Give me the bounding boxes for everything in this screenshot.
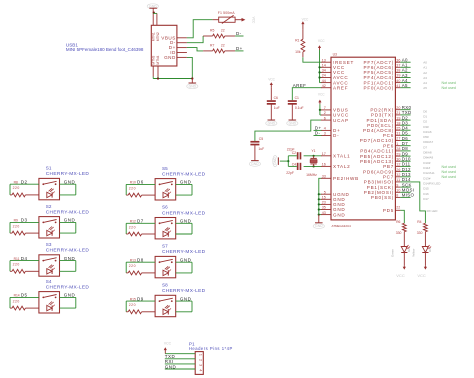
wire S5 to GND (176, 183, 192, 185)
svg-text:Not used: Not used (442, 175, 456, 179)
pin 26 PD6(ADC9) net D12 (395, 171, 400, 173)
wire LED cathode S6 (176, 233, 192, 235)
svg-text:29: 29 (396, 152, 400, 156)
svg-text:R12: R12 (130, 220, 136, 224)
pin 31 PC6 net D5 (395, 134, 400, 136)
svg-text:42: 42 (322, 84, 326, 88)
wire AVCC pin44 (320, 82, 322, 84)
svg-text:220: 220 (129, 264, 136, 268)
svg-text:220: 220 (13, 263, 20, 267)
svg-text:13: 13 (322, 58, 326, 62)
svg-text:GND: GND (333, 212, 345, 217)
pin 4 D+ (321, 129, 331, 131)
svg-text:33: 33 (322, 175, 326, 179)
svg-text:27: 27 (396, 137, 400, 141)
svg-text:GND: GND (268, 121, 276, 125)
svg-text:Headers Pins 1*4P: Headers Pins 1*4P (189, 346, 233, 351)
wire USB D+ to R7 (187, 48, 203, 51)
pin 22 PD5 (395, 209, 400, 211)
wire LED cathode S2 (60, 232, 76, 234)
svg-text:MTN3: MTN3 (152, 55, 156, 64)
switch S5 CHERRY-MX-LED body (155, 179, 176, 200)
supply VCC arrow right of F1 (242, 18, 246, 22)
pin 27 PD7(ADC10) net D6 (395, 140, 400, 142)
svg-text:38: 38 (396, 69, 400, 73)
svg-text:40: 40 (396, 79, 400, 83)
svg-text:D1: D1 (428, 248, 432, 252)
svg-text:GND: GND (189, 84, 197, 88)
svg-text:10: 10 (396, 189, 400, 193)
wire R6 to LED (403, 232, 405, 247)
svg-text:RX LED: RX LED (427, 209, 439, 213)
wire S2 to GND (60, 221, 76, 223)
svg-text:5: 5 (324, 190, 326, 194)
pin 35 GND (321, 209, 331, 211)
wire VCC pin14 (320, 66, 322, 68)
wire net A2 (400, 71, 410, 73)
svg-text:CHERRY-MX-LED: CHERRY-MX-LED (46, 284, 90, 290)
pin D- stub (177, 42, 187, 44)
pin 39 PF4(ADC4) net A3 (395, 77, 400, 79)
wire C2 left (288, 155, 297, 157)
wire GND return S8 (191, 301, 193, 312)
svg-text:30: 30 (396, 157, 400, 161)
wire C4 left (288, 165, 297, 167)
svg-text:CHERRY-MX-LED: CHERRY-MX-LED (162, 288, 206, 294)
ground symbol under USB (191, 79, 193, 84)
svg-text:D0: D0 (423, 109, 427, 113)
pin 44 AVCC (321, 82, 331, 84)
wire R11 to LED anode (25, 270, 39, 272)
svg-text:CHERRY-MX-LED: CHERRY-MX-LED (162, 171, 206, 177)
svg-text:GND: GND (180, 180, 192, 185)
pin 41 PF0(ADC0) net A5 (395, 87, 400, 89)
svg-text:PE2!HWB: PE2!HWB (333, 176, 359, 181)
svg-text:26: 26 (396, 168, 400, 172)
svg-text:GND: GND (165, 364, 177, 369)
wire S4 to GND (60, 296, 76, 298)
wire GND return S7 (191, 262, 193, 273)
wire XTAL1 row (304, 155, 322, 157)
resistor R7 22 (203, 50, 213, 52)
svg-text:GND: GND (251, 162, 259, 166)
svg-text:D8: D8 (137, 258, 144, 263)
svg-text:C6: C6 (274, 96, 278, 100)
wire R7 to net D+ (235, 50, 243, 52)
junction VCC pin14 (318, 66, 320, 68)
svg-text:1uF: 1uF (274, 106, 280, 110)
svg-text:22: 22 (221, 29, 225, 33)
pin MTN3 bottom stub (152, 66, 154, 77)
svg-text:R15: R15 (130, 297, 136, 301)
svg-text:D-: D- (236, 31, 242, 36)
svg-text:41: 41 (396, 84, 400, 88)
svg-text:D-: D- (315, 131, 321, 136)
svg-text:35: 35 (322, 206, 326, 210)
wire MTN3 to GND rail (152, 77, 154, 79)
connector P1 Headers Pins 1*4P body (195, 352, 203, 375)
svg-text:19: 19 (396, 116, 400, 120)
svg-text:S1: S1 (46, 166, 52, 171)
svg-text:Y1: Y1 (311, 149, 315, 153)
wire LED cathode S4 (60, 307, 76, 309)
svg-text:C5: C5 (259, 137, 263, 141)
svg-text:D17: D17 (423, 197, 429, 201)
pin 16 XTAL2 (321, 165, 331, 167)
svg-text:PF0(ADC0): PF0(ADC0) (364, 85, 395, 90)
svg-text:330: 330 (396, 231, 402, 235)
svg-text:Not used: Not used (442, 86, 456, 90)
connector USB1 MINI 5PFemale180 body (151, 25, 177, 66)
junction AVCC pin24 (318, 76, 320, 78)
wire LED to VCC down (403, 253, 405, 266)
svg-text:R8: R8 (14, 181, 18, 185)
supply VCC below RX LED (424, 265, 426, 268)
capacitor C1 0.1uF (288, 100, 297, 102)
wire net D4 (400, 129, 410, 131)
capacitor C4 22pF (297, 163, 299, 170)
wire net D3 (400, 124, 410, 126)
svg-text:A2: A2 (423, 71, 427, 75)
wire R5 to net D- (235, 35, 243, 37)
svg-text:15: 15 (322, 196, 326, 200)
wire LED cathode S8 (176, 311, 192, 313)
pin 42 AREF (321, 87, 331, 89)
svg-text:28: 28 (396, 147, 400, 151)
wire LED cathode S3 (60, 270, 76, 272)
svg-text:12: 12 (396, 163, 400, 167)
svg-text:GND: GND (180, 296, 192, 301)
svg-text:AREF: AREF (333, 85, 348, 90)
pin 15 GND (321, 198, 331, 200)
junction XTAL2 crystal (313, 165, 315, 167)
pin 8 PB0(SS) net MISO (395, 196, 400, 198)
svg-text:D1: D1 (423, 115, 427, 119)
switch S1 CHERRY-MX-LED body (39, 178, 60, 199)
svg-text:D15: D15 (423, 187, 429, 191)
LED yellow RX (422, 247, 428, 253)
junction MTN1/MTN2 to GND (153, 12, 155, 14)
pin 29 PB5(ADC12) net D9 (395, 155, 400, 157)
svg-text:24: 24 (322, 74, 326, 78)
svg-text:6: 6 (324, 116, 326, 120)
pin 36 PF7(ADC7) net A0 (395, 61, 400, 63)
svg-text:D16: D16 (423, 192, 429, 196)
wire MTN4 to GND rail (157, 77, 159, 79)
wire net D3 to S2 (10, 221, 39, 223)
junction VBUS (319, 109, 321, 111)
wire net A4 (400, 82, 410, 84)
wire XTAL2 row (304, 165, 322, 167)
wire R4 to LED (424, 232, 426, 247)
wire S1 to GND (60, 183, 76, 185)
wire C6 to ground (270, 105, 272, 121)
svg-text:U3: U3 (333, 53, 337, 57)
pin 17 XTAL1 (321, 155, 331, 157)
wire net D13 (400, 176, 410, 178)
pin 34 VCC (321, 71, 331, 73)
resistor R1 10k reset pullup (302, 29, 304, 39)
pin 2 UVCC (321, 114, 331, 116)
wire net A3 (400, 77, 410, 79)
svg-text:D10#: D10# (423, 161, 431, 165)
wire USB GND down (187, 57, 192, 78)
svg-text:VCC: VCC (396, 273, 405, 278)
svg-text:CHERRY-MX-LED: CHERRY-MX-LED (46, 248, 90, 254)
svg-text:R13: R13 (130, 259, 136, 263)
wire MTN1-MTN2 join (153, 12, 157, 14)
svg-text:MTN1: MTN1 (152, 32, 156, 41)
svg-text:220: 220 (129, 303, 136, 307)
svg-text:D9#/A9: D9#/A9 (423, 156, 433, 160)
svg-text:R11: R11 (14, 257, 20, 261)
svg-text:GND: GND (273, 157, 277, 165)
svg-text:D4/A6: D4/A6 (423, 130, 432, 134)
wire net SCK (400, 186, 410, 188)
wire GND return S6 (191, 223, 193, 234)
ground under C1 (289, 119, 297, 121)
wire UCAP to C5 (255, 120, 322, 141)
pin 5 UGND (321, 193, 331, 195)
wire VCC chain vertical (319, 50, 321, 83)
wire UVCC pin (320, 114, 322, 116)
junction VCC pin34 (318, 71, 320, 73)
svg-text:S8: S8 (162, 283, 168, 288)
svg-text:8: 8 (396, 194, 398, 198)
wire LED cathode S1 (60, 194, 76, 196)
supply VCC below TX LED (403, 265, 405, 268)
svg-text:S7: S7 (162, 244, 168, 249)
svg-text:CHERRY-MX-LED: CHERRY-MX-LED (162, 249, 206, 255)
pin 33 PE2!HWB (321, 177, 331, 179)
svg-text:GND: GND (180, 258, 192, 263)
svg-text:2: 2 (324, 111, 326, 115)
svg-text:22pF: 22pF (286, 171, 294, 175)
svg-text:XTAL2: XTAL2 (333, 164, 350, 169)
wire D14 to R4 (RX LED) (411, 182, 426, 223)
switch S7 CHERRY-MX-LED body (155, 256, 176, 277)
svg-text:R7: R7 (210, 44, 214, 48)
junction caps to ground (287, 160, 289, 162)
pin 38 PF5(ADC5) net A2 (395, 71, 400, 73)
wire GND pin23 (319, 203, 322, 205)
wire GND pin15 (319, 198, 322, 200)
svg-text:VCC: VCC (318, 39, 325, 43)
wire R13 to LED anode (142, 272, 156, 274)
pin 37 PF6(ADC6) net A1 (395, 66, 400, 68)
wire VCC to P1 pin1 (165, 353, 195, 355)
pin 19 PD1(SDA) net D2 (395, 119, 400, 121)
svg-text:D2: D2 (21, 180, 28, 185)
svg-text:VCC: VCC (417, 273, 426, 278)
wire GND rail under USB (153, 78, 192, 80)
wire GND return S2 (75, 222, 77, 233)
wire R1 to !RESET pin (302, 52, 304, 57)
junction UGND (318, 193, 320, 195)
svg-text:32: 32 (396, 173, 400, 177)
wire S7 to GND (176, 261, 192, 263)
pin 1 PE6 net D7 (395, 145, 400, 147)
wire net D8 (400, 150, 410, 152)
svg-text:GND: GND (180, 219, 192, 224)
junction MTN4 GND rail (157, 77, 159, 79)
wire GND return S4 (75, 297, 77, 308)
pin 28 PB4(ADC11) net D8 (395, 150, 400, 152)
wire net D14 (400, 181, 410, 183)
svg-text:R14: R14 (14, 294, 20, 298)
svg-text:C2: C2 (292, 151, 296, 155)
svg-text:UCAP: UCAP (333, 118, 349, 123)
wire C2-C4 junction vertical (287, 156, 289, 167)
svg-text:Not used: Not used (442, 81, 456, 85)
svg-text:VCC: VCC (164, 342, 172, 346)
wire net D7 (400, 145, 410, 147)
wire VCC pin34 (320, 71, 322, 73)
wire net D5 (400, 134, 410, 136)
svg-text:D12/A11: D12/A11 (423, 171, 435, 175)
svg-text:GND: GND (164, 55, 176, 60)
switch S4 CHERRY-MX-LED body (39, 292, 60, 313)
pin GND stub (177, 56, 187, 58)
svg-text:D5: D5 (21, 293, 28, 298)
svg-text:ATMEGA32U4: ATMEGA32U4 (332, 224, 352, 228)
wire GND return S3 (75, 261, 77, 272)
wire to crystal ground (280, 160, 289, 162)
svg-text:16: 16 (322, 163, 326, 167)
wire net D6 (400, 140, 410, 142)
wire R9 to LED anode (25, 232, 39, 234)
wire net D2 (400, 119, 410, 121)
wire GND pin43 (319, 214, 322, 216)
svg-text:MISO: MISO (402, 193, 415, 198)
wire PD5 to R6 (400, 210, 404, 223)
svg-text:GND: GND (315, 224, 323, 228)
ground under MCU (318, 215, 320, 223)
svg-text:Green: Green (391, 249, 395, 257)
svg-text:F1 500mA: F1 500mA (218, 11, 236, 15)
wire LED cathode S5 (176, 194, 192, 196)
pin 18 PD0(SCL) net D3 (395, 124, 400, 126)
ground for crystal caps rotated (277, 157, 279, 165)
svg-text:D9: D9 (137, 296, 144, 301)
svg-text:0.1uF: 0.1uF (295, 106, 304, 110)
wire GND return S1 (75, 184, 77, 195)
pin 11 PB3(MISO) net D14 (395, 181, 400, 183)
svg-text:22: 22 (221, 44, 225, 48)
svg-text:25: 25 (396, 126, 400, 130)
svg-text:A4: A4 (423, 81, 427, 85)
svg-text:Not used: Not used (442, 165, 456, 169)
svg-text:D3: D3 (21, 218, 28, 223)
pin 6 UCAP (321, 119, 331, 121)
wire net MOSI (400, 191, 410, 193)
wire net D2 to S1 (10, 183, 39, 185)
wire net A0 (400, 61, 410, 63)
junction GND43 (318, 214, 320, 216)
svg-text:3: 3 (324, 132, 326, 136)
wire VBUS pin (320, 109, 322, 111)
ground under C5 (251, 160, 259, 162)
svg-text:11: 11 (396, 178, 400, 182)
pin D+ stub (177, 47, 187, 49)
op-amp U3 ATMEGA32U4 body (331, 57, 395, 220)
svg-text:D2: D2 (423, 120, 427, 124)
wire R8 to LED anode (25, 194, 39, 196)
svg-text:S4: S4 (46, 279, 52, 284)
capacitor C2 22pF (297, 152, 299, 159)
svg-text:330: 330 (417, 231, 423, 235)
wire VCC to VBUS/UVCC (319, 104, 321, 115)
svg-text:MTN2: MTN2 (156, 32, 160, 41)
pin 14 VCC (321, 66, 331, 68)
svg-text:D3#: D3# (423, 125, 429, 129)
pin 21 PD3(TX) net TXD (395, 114, 400, 116)
wire LED cathode S7 (176, 272, 192, 274)
svg-text:GND: GND (64, 180, 76, 185)
svg-text:D5#: D5# (423, 135, 429, 139)
svg-text:220: 220 (129, 225, 136, 229)
wire net MISO (400, 196, 410, 198)
wire LED to VCC down 2 (424, 253, 426, 266)
svg-text:A0: A0 (423, 61, 427, 65)
svg-text:GND: GND (64, 256, 76, 261)
svg-text:VCC: VCC (318, 92, 325, 96)
wire net D9 to S8 (126, 300, 155, 302)
svg-text:D7: D7 (423, 145, 427, 149)
wire R10 to LED anode (142, 194, 156, 196)
wire net D4 to S3 (10, 260, 39, 262)
svg-text:A3: A3 (423, 76, 427, 80)
svg-text:4: 4 (324, 127, 326, 131)
pin 23 GND (321, 203, 331, 205)
svg-text:44: 44 (322, 79, 326, 83)
pin 3 D- (321, 135, 331, 137)
svg-text:D7: D7 (137, 219, 144, 224)
wire R14 to LED anode (25, 307, 39, 309)
junction GND23 (318, 203, 320, 205)
svg-text:31: 31 (396, 132, 400, 136)
svg-text:D-: D- (333, 133, 339, 138)
switch S6 CHERRY-MX-LED body (155, 218, 176, 239)
wire GND to P1 pin4 (165, 368, 195, 370)
wire net D5 to S4 (10, 296, 39, 298)
svg-text:R5: R5 (210, 29, 214, 33)
svg-text:1: 1 (396, 142, 398, 146)
capacitor C6 1uF (270, 88, 272, 101)
pin 43 GND (321, 214, 331, 216)
wire PE2!HWB to ground chain (319, 178, 322, 214)
pin VBUS stub (177, 37, 187, 39)
wire net D7 to S6 (126, 222, 155, 224)
svg-text:22pF: 22pF (287, 147, 295, 151)
svg-text:21: 21 (396, 111, 400, 115)
pin ID stub (177, 52, 187, 54)
svg-text:43: 43 (322, 211, 326, 215)
pin 20 PD2(RX) net RX0 (395, 109, 400, 111)
svg-text:A1: A1 (423, 66, 427, 70)
svg-text:GND: GND (64, 218, 76, 223)
svg-text:9: 9 (396, 183, 398, 187)
svg-text:D4: D4 (21, 256, 28, 261)
svg-text:18: 18 (396, 121, 400, 125)
svg-text:10k: 10k (295, 50, 301, 54)
svg-text:PD5: PD5 (383, 208, 394, 213)
LED green TX (401, 247, 407, 253)
svg-text:S5: S5 (162, 166, 168, 171)
wire UGND pin (319, 193, 322, 195)
svg-text:R6: R6 (396, 220, 400, 224)
svg-text:D6: D6 (137, 180, 144, 185)
